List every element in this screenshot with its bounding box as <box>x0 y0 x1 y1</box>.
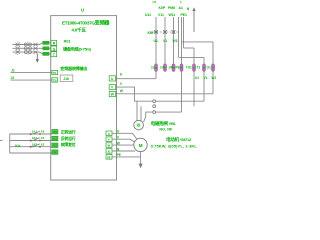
svg-text:变频器故障输出: 变频器故障输出 <box>60 65 87 71</box>
staircase wire 1 <box>182 41 214 43</box>
svg-text:1W: 1W <box>168 65 173 69</box>
svg-text:X1: X1 <box>41 136 45 140</box>
svg-text:KM: KM <box>148 31 154 35</box>
svg-text:W1: W1 <box>173 39 178 43</box>
svg-text:1A2: 1A2 <box>32 136 38 140</box>
brake YB circle <box>134 120 144 130</box>
svg-text:键盘电缆(0-75m): 键盘电缆(0-75m) <box>62 45 92 52</box>
wire J1 <box>11 72 52 74</box>
motor ground line <box>140 152 142 164</box>
motor strip terminal 4 <box>106 149 112 154</box>
svg-text:U: U <box>108 132 110 136</box>
terminal W out <box>109 92 115 97</box>
vertical riser V1 <box>164 17 166 72</box>
terminal U out <box>109 76 115 81</box>
svg-text:1A1: 1A1 <box>32 130 38 134</box>
brake feed wire 2 <box>140 106 142 121</box>
svg-text:U1: U1 <box>195 76 199 80</box>
riser capsule5 / PE arrow <box>193 48 195 64</box>
riser capsule6 <box>203 57 205 63</box>
filter X marks <box>34 43 38 54</box>
svg-text:V11: V11 <box>158 13 164 17</box>
svg-text:O: O <box>137 124 140 128</box>
terminal capsule 3 <box>172 64 175 72</box>
wire U out <box>116 78 157 80</box>
brake feed wire 3 <box>144 112 182 122</box>
contactor dashed link <box>27 42 29 56</box>
svg-text:1A3: 1A3 <box>32 142 38 146</box>
motor wire PE <box>112 156 141 158</box>
junction circle 1 <box>153 100 156 103</box>
svg-text:J2: J2 <box>11 76 15 80</box>
svg-text:TU1: TU1 <box>186 65 192 69</box>
svg-text:V1: V1 <box>204 76 208 80</box>
svg-text:ET1000-4T0037G变频器: ET1000-4T0037G变频器 <box>62 18 110 26</box>
wire input phase T <box>13 52 52 54</box>
wire W out long <box>116 93 214 95</box>
vertical riser W1 <box>173 17 175 72</box>
staircase wire 3 <box>184 47 195 49</box>
svg-text:X2: X2 <box>41 142 45 146</box>
wire input phase R <box>13 43 52 45</box>
control bus vertical <box>9 134 11 153</box>
svg-text:U1: U1 <box>153 0 157 4</box>
terminal COM <box>52 150 58 154</box>
wire tag T <box>43 52 50 56</box>
wire X3 run <box>10 146 52 148</box>
svg-text:U1: U1 <box>154 39 158 43</box>
svg-text:V: V <box>108 138 110 142</box>
motor M circle <box>134 138 147 151</box>
wire J2 <box>11 79 52 81</box>
wire COM run <box>10 152 52 154</box>
svg-text:4.0千瓦: 4.0千瓦 <box>72 26 87 33</box>
wire tag R <box>43 41 50 45</box>
terminal X5 <box>52 130 58 134</box>
svg-text:U: U <box>81 7 84 12</box>
wire input phase S <box>13 47 52 49</box>
staircase wire 2 <box>179 56 205 58</box>
svg-text:故障复位: 故障复位 <box>61 142 76 147</box>
svg-text:T1: T1 <box>197 65 201 69</box>
terminal capsule 5 <box>193 64 196 72</box>
motor wire U <box>112 133 137 139</box>
terminal T <box>51 52 57 57</box>
svg-text:K0P: K0P <box>159 6 166 10</box>
svg-text:W: W <box>108 144 111 148</box>
terminal TB <box>52 78 58 82</box>
svg-text:J1: J1 <box>11 68 15 72</box>
riser capsule4 <box>181 17 183 64</box>
terminal X1 <box>52 136 58 140</box>
svg-text:V1: V1 <box>163 39 167 43</box>
terminal TA <box>52 70 58 74</box>
svg-text:J16: J16 <box>63 77 69 81</box>
svg-text:X5: X5 <box>41 130 45 134</box>
motor wire N <box>112 150 135 152</box>
ground drop arrow at input <box>36 54 38 60</box>
motor wire V <box>112 139 135 142</box>
vertical riser U1 <box>155 17 157 79</box>
junction circle 2 <box>153 105 156 108</box>
terminal capsule 6 <box>203 64 206 72</box>
contactor KM main contacts (circles) <box>24 43 31 54</box>
terminal X2 <box>52 143 58 147</box>
svg-text:KA: KA <box>15 144 21 148</box>
motor strip terminal 3 <box>106 143 112 148</box>
svg-text:电磁抱闸 YB1: 电磁抱闸 YB1 <box>151 120 177 127</box>
wire X2 run <box>10 140 52 142</box>
breaker QF poles (X marks) <box>16 43 21 54</box>
switch KA2 <box>31 138 40 141</box>
terminal R <box>51 40 57 45</box>
wire tag S <box>43 47 50 51</box>
wire X1 run <box>10 133 52 135</box>
svg-text:PM6: PM6 <box>168 6 175 10</box>
svg-text:0.75KW, 3(05)YL, 1-3KL: 0.75KW, 3(05)YL, 1-3KL <box>151 144 198 149</box>
svg-text:PE: PE <box>107 155 111 159</box>
svg-text:W1: W1 <box>212 76 217 80</box>
svg-text:正转运行: 正转运行 <box>61 130 76 135</box>
svg-text:NO, NF: NO, NF <box>159 128 173 132</box>
svg-text:电动机 YM712: 电动机 YM712 <box>166 136 192 143</box>
svg-text:反转运行: 反转运行 <box>61 136 76 141</box>
inverter main box U1 <box>51 16 117 180</box>
svg-text:PE1: PE1 <box>181 13 188 17</box>
relay sub-box J16 <box>60 75 73 82</box>
svg-text:1U: 1U <box>151 65 156 69</box>
terminal capsule 1 <box>155 64 158 72</box>
switch KA1 <box>31 131 40 134</box>
svg-text:N: N <box>108 150 110 154</box>
terminal V out <box>109 85 115 90</box>
svg-text:O1: O1 <box>207 65 211 69</box>
switch KA3 <box>31 144 40 147</box>
motor strip terminal 5 <box>106 155 112 160</box>
terminal capsule 7 <box>212 64 215 72</box>
brake feed wire 1 <box>136 101 138 121</box>
terminal S <box>51 46 57 51</box>
terminal capsule 2 <box>164 64 167 72</box>
svg-text:X5: X5 <box>53 130 57 134</box>
svg-text:A1: A1 <box>179 6 183 10</box>
svg-text:M: M <box>139 143 143 148</box>
wire V out with jog <box>116 87 205 101</box>
contactor KM dashed row <box>150 31 178 33</box>
svg-text:R01: R01 <box>64 40 71 44</box>
motor strip terminal 1 <box>106 131 112 136</box>
terminal capsule 4 <box>180 64 183 72</box>
motor strip terminal 2 <box>106 137 112 142</box>
svg-text:U11: U11 <box>145 13 151 17</box>
svg-text:PE: PE <box>176 65 180 69</box>
svg-text:X1: X1 <box>53 137 57 141</box>
junction circle 3 <box>153 111 156 114</box>
motor wire W <box>112 144 134 146</box>
breaker QF dashed link <box>17 42 19 56</box>
svg-text:X2: X2 <box>53 144 57 148</box>
svg-text:W11: W11 <box>169 13 176 17</box>
riser capsule7 <box>212 42 214 64</box>
svg-text:CM: CM <box>52 151 56 155</box>
